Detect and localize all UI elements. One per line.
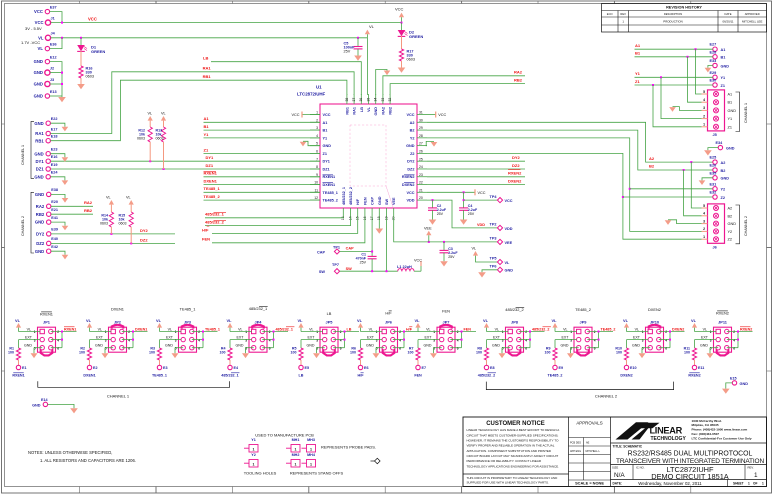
svg-text:485/232_1: 485/232_1 xyxy=(249,306,267,311)
svg-text:LB: LB xyxy=(327,311,332,316)
svg-text:GND: GND xyxy=(34,121,43,126)
svg-text:10: 10 xyxy=(314,181,318,185)
svg-text:1: 1 xyxy=(245,330,247,334)
svg-text:RA1: RA1 xyxy=(353,107,357,115)
svg-text:EXT: EXT xyxy=(237,336,245,340)
wire RB2 to pin 32 xyxy=(390,78,525,96)
svg-text:A2: A2 xyxy=(649,156,655,161)
wire LB to pin 36 xyxy=(203,56,361,95)
ground below C2 xyxy=(429,220,437,225)
wire EXT row JP2 xyxy=(90,340,112,348)
resistor R10 100 xyxy=(615,347,628,366)
svg-text:REPRESENTS STAND OFFS: REPRESENTS STAND OFFS xyxy=(290,470,344,475)
svg-text:3: 3 xyxy=(502,338,504,342)
wire B2 vertical to J6 pin 4 xyxy=(684,170,702,216)
svg-text:E9: E9 xyxy=(559,366,564,370)
svg-text:1: 1 xyxy=(105,330,107,334)
svg-text:1: 1 xyxy=(754,472,758,479)
svg-text:E12: E12 xyxy=(50,55,57,59)
svg-text:VL: VL xyxy=(483,318,489,323)
tooling hole Y1 xyxy=(244,433,314,452)
svg-text:JP7: JP7 xyxy=(443,319,450,324)
svg-text:2: 2 xyxy=(733,330,735,334)
svg-text:REV.: REV. xyxy=(748,466,754,470)
terminal E12 GND xyxy=(34,55,57,64)
svg-text:TP4: TP4 xyxy=(490,195,498,199)
test point TP4 VCC xyxy=(490,195,513,203)
svg-text:3: 3 xyxy=(316,126,318,130)
power symbol VL at TP5 xyxy=(472,247,498,262)
ground at E41 xyxy=(51,222,68,230)
terminal E29 Y1 xyxy=(710,71,726,80)
svg-text:B1: B1 xyxy=(721,56,726,60)
svg-text:Y2: Y2 xyxy=(728,230,733,234)
terminal E26 B2 xyxy=(710,164,726,173)
svg-text:TE485_1: TE485_1 xyxy=(180,307,196,312)
ground at JP5 xyxy=(313,348,325,358)
svg-text:RA2: RA2 xyxy=(381,107,385,115)
resistor R9 100 xyxy=(545,347,558,366)
svg-text:VERIFY PROPER AND RELIABLE OPE: VERIFY PROPER AND RELIABLE OPERATION IN … xyxy=(467,444,555,448)
ground at TP6 xyxy=(478,270,497,278)
svg-text:FEN: FEN xyxy=(464,327,472,331)
svg-text:E10: E10 xyxy=(630,366,637,370)
svg-text:E29: E29 xyxy=(710,71,717,75)
svg-text:REPRESENTS PROBE PADS.: REPRESENTS PROBE PADS. xyxy=(321,444,376,449)
power VL at JP9 xyxy=(552,318,577,332)
wire net 485/232_1 at JP4 pin 2 xyxy=(262,327,294,348)
svg-text:VCC: VCC xyxy=(438,113,446,117)
svg-text:VEE: VEE xyxy=(424,226,432,230)
svg-text:100: 100 xyxy=(476,351,482,355)
svg-text:OF: OF xyxy=(753,482,757,486)
svg-text:B1: B1 xyxy=(635,51,641,56)
wire CAP net xyxy=(340,217,374,256)
svg-text:EXT: EXT xyxy=(308,336,316,340)
wire RA1 E17 to pin 37 xyxy=(50,66,354,134)
svg-text:22: 22 xyxy=(419,181,423,185)
svg-text:4: 4 xyxy=(399,338,401,342)
resistor R11 100 xyxy=(684,347,697,366)
terminal E3 TE485_1 xyxy=(152,365,168,377)
svg-text:DATE:: DATE: xyxy=(613,482,623,486)
connector J5 channel 1 xyxy=(702,90,737,137)
svg-text:DXEN1: DXEN1 xyxy=(111,307,124,312)
ground at E35 xyxy=(699,178,713,185)
svg-text:4: 4 xyxy=(594,338,596,342)
svg-text:MH2: MH2 xyxy=(292,453,300,457)
svg-text:DY2: DY2 xyxy=(512,155,521,160)
svg-text:VL: VL xyxy=(106,196,111,200)
power bar VCC at pin 31 xyxy=(427,112,446,118)
svg-text:Z2: Z2 xyxy=(410,152,414,156)
svg-text:GND: GND xyxy=(35,249,44,254)
jumper JP4 485/232_1 xyxy=(236,306,271,352)
svg-text:5: 5 xyxy=(703,90,705,94)
connector J2 GND xyxy=(34,66,55,75)
resistor R5 100 xyxy=(291,347,304,366)
test point TP2 VDD xyxy=(490,222,513,230)
svg-text:VL: VL xyxy=(472,247,477,251)
svg-text:DXEN2: DXEN2 xyxy=(620,373,632,377)
terminal E5 LB xyxy=(299,365,309,377)
svg-text:0603: 0603 xyxy=(86,74,94,78)
svg-text:RB1: RB1 xyxy=(203,74,212,79)
channel 2 jumper bracket xyxy=(486,382,673,399)
svg-text:Y2: Y2 xyxy=(410,136,415,140)
svg-text:100: 100 xyxy=(684,351,690,355)
svg-text:Z1: Z1 xyxy=(204,147,209,152)
svg-text:A1: A1 xyxy=(323,121,328,125)
power VL at JP2 xyxy=(86,318,111,332)
svg-text:6: 6 xyxy=(594,346,596,350)
wire 485/232_1 from pin 13 xyxy=(205,212,343,218)
svg-text:GND: GND xyxy=(721,64,730,68)
wire RA2 from E20 xyxy=(51,200,93,206)
svg-text:Y1: Y1 xyxy=(323,136,328,140)
svg-text:VL: VL xyxy=(168,327,172,331)
svg-text:VCC: VCC xyxy=(323,113,331,117)
wire EXT row JP10 xyxy=(627,340,649,348)
svg-text:VCC: VCC xyxy=(406,191,414,195)
svg-text:Wednesday, November 02, 2011: Wednesday, November 02, 2011 xyxy=(638,481,702,486)
svg-text:E18: E18 xyxy=(51,135,58,139)
svg-text:E40: E40 xyxy=(51,237,58,241)
svg-text:L1 22uH: L1 22uH xyxy=(397,265,412,269)
wire EXT row JP4 xyxy=(230,340,252,348)
svg-text:GND: GND xyxy=(561,344,569,348)
svg-text:485/232_2: 485/232_2 xyxy=(505,307,523,312)
svg-text:6: 6 xyxy=(269,346,271,350)
svg-text:RB2: RB2 xyxy=(514,78,523,83)
ground at pin 18 xyxy=(376,217,384,234)
svg-text:Y1: Y1 xyxy=(721,76,726,80)
power VL at JP10 xyxy=(623,318,648,332)
svg-text:6: 6 xyxy=(399,346,401,350)
svg-text:HOWEVER, IT REMAINS THE CUSTOM: HOWEVER, IT REMAINS THE CUSTOMER'S RESPO… xyxy=(467,439,560,443)
svg-text:REV: REV xyxy=(620,12,626,16)
Linear Technology logo xyxy=(616,419,752,442)
svg-text:J1: J1 xyxy=(51,16,55,20)
svg-text:VL: VL xyxy=(27,327,31,331)
svg-text:30: 30 xyxy=(419,118,423,122)
svg-text:TE485_1: TE485_1 xyxy=(323,191,338,195)
inductor L1 22uH xyxy=(397,265,421,271)
wire EXT row JP9 xyxy=(555,340,577,348)
svg-text:3: 3 xyxy=(710,338,712,342)
svg-text:VL: VL xyxy=(309,327,313,331)
svg-text:25V: 25V xyxy=(344,49,351,53)
svg-text:E36: E36 xyxy=(50,42,57,46)
svg-text:APPLICATION. COMPONENT SUBSTI: APPLICATION. COMPONENT SUBSTITUTION AND … xyxy=(467,449,552,453)
wire Y2 branch to E31 xyxy=(630,188,713,190)
svg-text:GND: GND xyxy=(728,222,737,226)
wire net TE485_1 at JP3 pin 2 xyxy=(192,327,220,347)
svg-text:RA2: RA2 xyxy=(514,70,523,75)
wire DZ2 from pin 24 xyxy=(427,163,525,169)
svg-text:VL: VL xyxy=(298,318,304,323)
svg-text:25V: 25V xyxy=(448,255,455,259)
svg-text:20: 20 xyxy=(419,196,423,200)
svg-text:3: 3 xyxy=(376,338,378,342)
svg-text:E35: E35 xyxy=(710,171,717,175)
svg-text:GND: GND xyxy=(740,382,749,386)
svg-text:VCC: VCC xyxy=(35,20,44,25)
wire EXT row JP3 xyxy=(160,340,182,348)
svg-text:2: 2 xyxy=(703,227,705,231)
svg-text:RB2: RB2 xyxy=(84,208,93,213)
svg-text:GREEN: GREEN xyxy=(409,34,423,39)
terminal E42 GND xyxy=(35,245,58,254)
svg-text:H/F: H/F xyxy=(385,311,392,316)
power VL at JP11 xyxy=(691,318,716,332)
svg-text:9: 9 xyxy=(316,173,318,177)
svg-text:E20: E20 xyxy=(51,200,58,204)
svg-text:E3: E3 xyxy=(163,366,168,370)
tooling hole Y2 xyxy=(244,453,258,467)
svg-text:RA2: RA2 xyxy=(84,200,93,205)
ground at E24 xyxy=(50,177,68,185)
svg-text:3: 3 xyxy=(433,338,435,342)
channel 2 input bracket xyxy=(21,192,34,253)
svg-text:VCC: VCC xyxy=(406,113,414,117)
svg-text:DXEN1: DXEN1 xyxy=(204,179,218,184)
svg-text:485/232_1: 485/232_1 xyxy=(276,327,293,331)
power bar VCC after L1 xyxy=(414,259,422,272)
wire A1 to E27 and J5 xyxy=(635,43,713,94)
svg-text:TE485_2: TE485_2 xyxy=(204,194,221,199)
svg-text:TE485_2: TE485_2 xyxy=(323,199,338,203)
test point TP3 VEE xyxy=(490,236,513,244)
wire net RXEN1 at JP1 pin 2 xyxy=(51,327,77,348)
svg-text:RA2: RA2 xyxy=(36,204,45,209)
terminal E1 RXEN1 xyxy=(12,365,26,377)
svg-text:TE485_1: TE485_1 xyxy=(152,373,167,377)
svg-text:VCC: VCC xyxy=(291,113,299,117)
svg-text:100: 100 xyxy=(545,351,551,355)
svg-text:VL: VL xyxy=(227,318,233,323)
jumper JP6 H/F xyxy=(366,311,401,356)
terminal E4 485/232_1 xyxy=(221,365,239,377)
svg-text:3: 3 xyxy=(105,338,107,342)
svg-text:VDD: VDD xyxy=(406,199,414,203)
svg-text:GND: GND xyxy=(726,147,735,151)
svg-text:LINEAR: LINEAR xyxy=(650,426,683,436)
svg-text:GND: GND xyxy=(165,344,173,348)
svg-text:REVISION HISTORY: REVISION HISTORY xyxy=(666,6,702,10)
svg-text:VL: VL xyxy=(635,327,639,331)
svg-text:CIRCUIT BOARD LAYOUT MAY SIGNI: CIRCUIT BOARD LAYOUT MAY SIGNIFICANTLY A… xyxy=(467,454,559,458)
svg-text:2: 2 xyxy=(457,330,459,334)
svg-text:12: 12 xyxy=(314,196,318,200)
channel 2 bracket at J6 xyxy=(736,205,749,244)
svg-text:38: 38 xyxy=(345,98,349,102)
svg-text:E39: E39 xyxy=(51,228,58,232)
svg-text:JP11: JP11 xyxy=(718,319,728,324)
svg-text:JP10: JP10 xyxy=(650,319,659,324)
svg-text:VCC: VCC xyxy=(34,9,43,14)
svg-text:36: 36 xyxy=(359,98,363,102)
svg-text:JP9: JP9 xyxy=(580,319,588,324)
svg-text:GND: GND xyxy=(378,196,382,205)
terminal E20 RA2 xyxy=(36,200,58,209)
svg-text:1.7V -VCC: 1.7V -VCC xyxy=(21,40,40,45)
wire Y2 pin 28 to J6 xyxy=(427,138,702,232)
svg-text:Z2: Z2 xyxy=(721,196,725,200)
svg-text:GND: GND xyxy=(35,220,44,225)
svg-text:FEN: FEN xyxy=(202,237,210,242)
wire VL to pin 35 xyxy=(366,38,368,95)
svg-text:1630 McCarthy Blvd.: 1630 McCarthy Blvd. xyxy=(692,419,722,423)
resistor R2 100 xyxy=(79,347,92,366)
terminal E30 Z1 xyxy=(710,79,725,88)
resistor R1 100 xyxy=(8,347,21,366)
svg-text:E28: E28 xyxy=(710,50,717,54)
svg-text:Phone: (408)432-1900 www.line: Phone: (408)432-1900 www.linear.com xyxy=(692,428,748,432)
svg-text:4: 4 xyxy=(703,212,705,216)
resistor R4 100 xyxy=(220,347,233,366)
svg-text:EXT: EXT xyxy=(701,336,709,340)
svg-text:2: 2 xyxy=(340,330,342,334)
svg-text:DATE: DATE xyxy=(725,12,732,16)
svg-text:1: 1 xyxy=(253,463,255,467)
svg-text:33: 33 xyxy=(381,98,385,102)
svg-text:VL: VL xyxy=(367,106,371,112)
wire 485/232_2 from pin 14 xyxy=(205,217,351,226)
svg-text:B1: B1 xyxy=(728,101,733,105)
svg-text:VL: VL xyxy=(563,327,567,331)
wire VL rail xyxy=(51,37,368,39)
svg-text:21: 21 xyxy=(419,188,423,192)
svg-text:E7: E7 xyxy=(422,366,427,370)
svg-text:E26: E26 xyxy=(710,164,717,168)
wire Z1 to pin 6 xyxy=(204,147,321,153)
svg-text:E11: E11 xyxy=(698,366,704,370)
svg-text:Z1: Z1 xyxy=(728,125,732,129)
svg-text:2: 2 xyxy=(525,330,527,334)
terminal E24 GND xyxy=(34,171,58,180)
svg-text:GND: GND xyxy=(505,269,514,273)
svg-text:THIS CIRCUIT IS PROPRIETARY TO: THIS CIRCUIT IS PROPRIETARY TO LINEAR TE… xyxy=(467,476,559,480)
terminal E28 B1 xyxy=(710,50,726,59)
ground below C5 xyxy=(354,49,362,61)
svg-text:E1: E1 xyxy=(22,366,27,370)
svg-text:EXT: EXT xyxy=(633,336,641,340)
test point TP5 VL xyxy=(490,257,511,265)
svg-text:1: 1 xyxy=(34,330,36,334)
svg-text:AE: AE xyxy=(586,441,590,444)
svg-text:GND: GND xyxy=(700,344,708,348)
svg-text:JP3: JP3 xyxy=(184,319,192,324)
wire RB1 E18 to pin 38 xyxy=(50,74,347,141)
svg-text:6: 6 xyxy=(665,346,667,350)
connector J1 VCC input xyxy=(25,16,55,30)
svg-text:2: 2 xyxy=(665,330,667,334)
svg-text:TE485_2: TE485_2 xyxy=(575,307,591,312)
svg-text:LINEAR TECHNOLOGY HAS MADE A B: LINEAR TECHNOLOGY HAS MADE A BEST EFFORT… xyxy=(467,428,560,432)
svg-text:CUSTOMER NOTICE: CUSTOMER NOTICE xyxy=(486,421,545,427)
ground at JP4 xyxy=(242,348,254,358)
svg-text:E19: E19 xyxy=(51,163,58,167)
resistor R7 100 xyxy=(408,347,421,366)
terminal E31 Y2 xyxy=(710,182,726,191)
svg-text:25V: 25V xyxy=(360,260,367,264)
ground at JP11 xyxy=(707,348,719,358)
probe pad legend xyxy=(321,444,380,463)
svg-text:RXEN2: RXEN2 xyxy=(688,373,700,377)
wire SW net xyxy=(340,217,398,272)
svg-text:6: 6 xyxy=(316,150,318,154)
svg-text:3: 3 xyxy=(175,338,177,342)
wire DY2 from pin 25 xyxy=(427,155,525,161)
svg-text:32: 32 xyxy=(388,98,392,102)
terminal E11 RXEN2 xyxy=(688,365,704,377)
svg-text:3V - 5.5V: 3V - 5.5V xyxy=(25,26,42,31)
channel 1 jumper bracket xyxy=(38,381,230,398)
svg-text:RA1: RA1 xyxy=(203,66,212,71)
svg-text:3: 3 xyxy=(570,338,572,342)
svg-text:JP8: JP8 xyxy=(511,319,519,324)
wire VEE rail from pin 20 bottom xyxy=(394,217,498,243)
jumper JP10 DXEN2 xyxy=(632,307,667,352)
wire Z2 pin 26 to J6 xyxy=(427,153,702,239)
svg-text:TP7: TP7 xyxy=(332,263,339,267)
svg-text:JP4: JP4 xyxy=(255,319,263,324)
svg-text:A2: A2 xyxy=(410,121,415,125)
svg-text:27: 27 xyxy=(419,142,423,146)
svg-text:CHANNEL 1: CHANNEL 1 xyxy=(744,103,748,123)
svg-text:DZ2: DZ2 xyxy=(140,237,148,242)
svg-text:VDD: VDD xyxy=(505,227,513,231)
svg-text:100: 100 xyxy=(149,351,155,355)
svg-text:VEE: VEE xyxy=(505,241,513,245)
terminal E9 TE485_2 xyxy=(548,365,564,377)
svg-text:TITLE: SCHEMATIC: TITLE: SCHEMATIC xyxy=(613,445,643,449)
svg-text:4: 4 xyxy=(57,338,59,342)
svg-text:100: 100 xyxy=(408,351,414,355)
wire net DXEN2 at JP10 pin 2 xyxy=(659,327,685,347)
wire DXEN1 to pin 10 xyxy=(204,179,321,185)
wire DXEN2 from pin 22 xyxy=(427,179,525,185)
svg-text:TOOLING HOLES: TOOLING HOLES xyxy=(244,470,277,475)
terminal E33 GND xyxy=(710,59,730,68)
terminal E35 GND xyxy=(710,171,730,180)
ground at E38 xyxy=(51,194,68,202)
ground at E33 xyxy=(705,66,713,73)
svg-text:1: 1 xyxy=(762,482,764,486)
svg-text:4: 4 xyxy=(733,338,735,342)
svg-text:DXEN2: DXEN2 xyxy=(648,307,661,312)
svg-text:VL: VL xyxy=(238,327,242,331)
svg-text:Z1: Z1 xyxy=(323,152,327,156)
wire B1 to E28 and J5 xyxy=(635,51,713,102)
svg-text:E24: E24 xyxy=(51,171,59,175)
wire RA2 to pin 33 xyxy=(383,70,525,95)
power VL at JP4 xyxy=(227,318,252,332)
svg-text:RXEN1: RXEN1 xyxy=(323,175,336,179)
wire EXT row JP11 xyxy=(695,340,717,348)
wire Y1 to pin 4 xyxy=(204,132,321,138)
svg-text:4: 4 xyxy=(128,338,130,342)
svg-text:GND: GND xyxy=(492,344,500,348)
svg-text:MH3: MH3 xyxy=(307,438,315,442)
wire TE485_2 to pin 12 xyxy=(204,194,321,200)
test point TP7 SW xyxy=(319,263,352,274)
ground below R17 xyxy=(398,61,406,73)
svg-text:PCB DES: PCB DES xyxy=(570,441,581,444)
ground below R16 xyxy=(77,78,85,89)
svg-text:E22: E22 xyxy=(51,117,58,121)
